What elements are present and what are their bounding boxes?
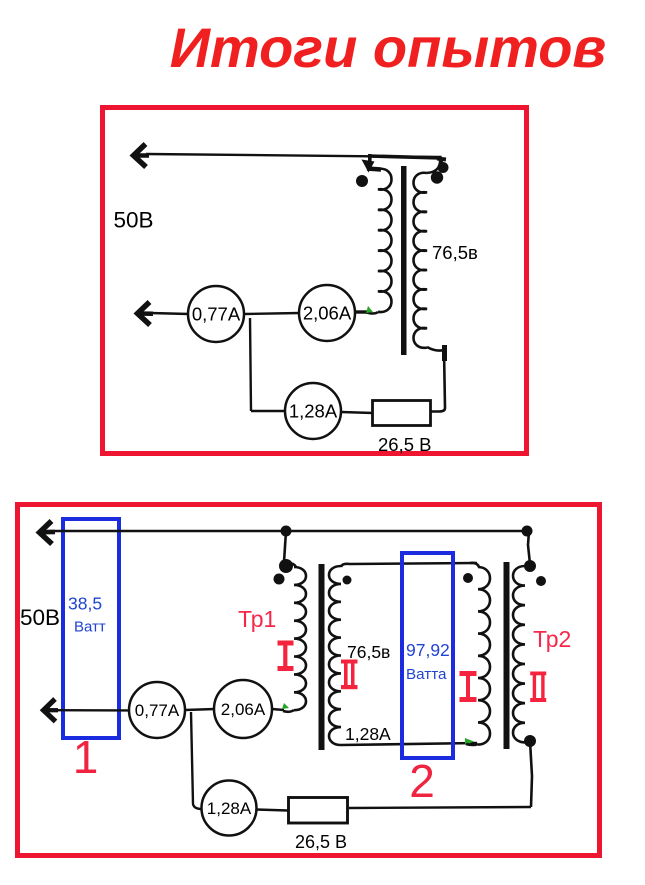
ammeter A2 2,06А xyxy=(299,285,355,341)
node dot secondary xyxy=(431,171,443,183)
wire top rail xyxy=(146,154,440,157)
wire A1 down branch xyxy=(250,318,251,411)
svg-text:0,77А: 0,77А xyxy=(192,304,241,325)
symbol II Тр1 xyxy=(341,660,358,690)
wire junction to primary top xyxy=(367,169,381,170)
wire top-right corner down xyxy=(440,156,442,167)
label 97,92 Ватта xyxy=(406,640,450,683)
wire Тр2 sec top to rail xyxy=(528,531,530,564)
node dot Тр1 secondary polarity xyxy=(343,576,352,585)
wire R2 to A6 xyxy=(256,810,288,811)
node dot Тр1 polarity xyxy=(274,574,285,585)
svg-text:50В: 50В xyxy=(20,605,60,630)
wire A3 to resistor xyxy=(341,412,373,413)
svg-text:Итоги опытов: Итоги опытов xyxy=(170,16,607,79)
arrow left bottom-top xyxy=(40,521,53,544)
svg-text:2,06А: 2,06А xyxy=(221,700,266,719)
node dot Тр2 sec polarity xyxy=(536,576,546,586)
transformer Тр1 secondary winding xyxy=(329,566,341,745)
node dot Тр1 top xyxy=(279,559,293,573)
wire secondary top hook xyxy=(427,157,440,173)
ammeter A5 2,06А xyxy=(214,680,272,738)
arrow left mid xyxy=(138,302,151,325)
node dot primary xyxy=(356,175,368,187)
wattmeter W2 box xyxy=(402,553,453,758)
node dot corner xyxy=(438,162,449,173)
top circuit frame xyxy=(103,108,527,454)
ammeter A3 1,28А xyxy=(285,383,341,439)
node dot rail right xyxy=(522,526,533,537)
green mark xyxy=(366,306,373,313)
transformer Тр1 primary winding xyxy=(288,563,306,710)
node dot Тр2 secondary top xyxy=(524,560,536,572)
wire rail drop to Тр1 xyxy=(284,531,286,562)
wire Тр2 primary bottom hook xyxy=(466,744,478,745)
wire bottom link to resistor xyxy=(349,807,531,808)
svg-text:50В: 50В xyxy=(114,208,154,233)
svg-text:38,5: 38,5 xyxy=(68,594,102,614)
wire A4 to A5 xyxy=(185,709,215,710)
junction arrowhead xyxy=(368,154,372,164)
svg-text:1,28А: 1,28А xyxy=(207,799,252,818)
wire bottom top rail xyxy=(47,530,530,532)
transformer T core xyxy=(401,166,407,355)
wire Тр1 sec top to Тр2 pri top xyxy=(341,563,477,567)
svg-text:2,06А: 2,06А xyxy=(303,303,352,324)
svg-text:1: 1 xyxy=(73,731,99,783)
wire A2 to primary xyxy=(355,310,367,313)
wire secondary bottom hook xyxy=(427,347,444,351)
svg-text:Тр1: Тр1 xyxy=(238,606,276,632)
wire lower rail to A4 xyxy=(52,709,131,712)
symbol II Тр2 xyxy=(530,672,546,703)
green mark 2 xyxy=(282,703,289,709)
transformer Тр2 core xyxy=(504,562,510,749)
svg-text:26,5 В: 26,5 В xyxy=(295,832,347,852)
green mark 3 xyxy=(465,738,474,745)
svg-text:76,5в: 76,5в xyxy=(347,642,390,662)
svg-text:97,92: 97,92 xyxy=(406,640,450,660)
wire arrow to ammeter xyxy=(150,313,189,314)
resistor R1 xyxy=(373,401,431,426)
resistor R2 xyxy=(289,798,348,824)
wire A5 to Тр1 primary xyxy=(272,709,284,710)
svg-text:26,5 В: 26,5 В xyxy=(378,434,432,455)
node dot top rail xyxy=(281,526,292,537)
svg-text:Тр2: Тр2 xyxy=(533,626,571,652)
transformer T primary winding xyxy=(378,169,392,312)
node dot Тр2 primary polarity xyxy=(463,573,473,583)
bottom circuit frame xyxy=(18,505,600,856)
ammeter A1 0,77А xyxy=(188,286,244,342)
wire branch to A3 xyxy=(251,410,286,412)
wire Тр2 sec bottom down xyxy=(530,741,532,807)
wattmeter W1 box xyxy=(63,519,119,738)
node dot Тр2 sec bottom xyxy=(524,735,536,747)
svg-text:0,77А: 0,77А xyxy=(135,701,180,720)
arrow left bottom-mid xyxy=(44,699,56,722)
transformer Тр2 primary winding xyxy=(470,563,490,745)
wire branch A4/A5 down to A6 xyxy=(191,712,202,809)
svg-text:1,28А: 1,28А xyxy=(289,401,338,422)
transformer Тр1 core xyxy=(319,564,325,750)
svg-text:76,5в: 76,5в xyxy=(432,242,478,263)
symbol I Тр2 xyxy=(460,671,477,702)
ammeter A6 1,28А xyxy=(202,781,257,836)
ammeter A4 0,77А xyxy=(129,682,185,738)
wire Тр1 primary bottom hook xyxy=(283,710,294,712)
wire secondary to resistor xyxy=(431,349,445,412)
transformer Тр2 secondary winding xyxy=(513,566,525,742)
svg-text:Ватта: Ватта xyxy=(406,666,447,683)
wire primary bottom hook xyxy=(365,312,378,314)
wire A1 to A2 xyxy=(244,313,300,314)
label 38,5 Ватт xyxy=(68,594,106,636)
svg-text:Ватт: Ватт xyxy=(74,619,106,636)
svg-text:2: 2 xyxy=(409,755,435,807)
wire Тр1 sec bottom to Тр2 pri bottom xyxy=(341,743,477,745)
transformer T secondary winding xyxy=(414,173,428,348)
arrow left top xyxy=(134,144,147,167)
symbol I Тр1 xyxy=(278,641,294,672)
svg-text:1,28А: 1,28А xyxy=(345,724,391,744)
